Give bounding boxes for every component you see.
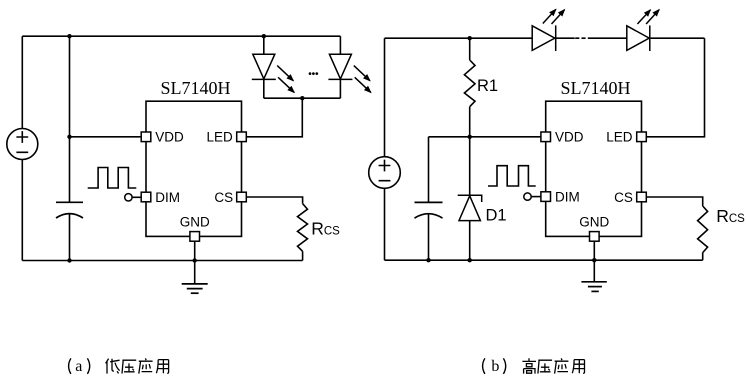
capacitor C1: [56, 202, 83, 218]
svg-text:LED: LED: [207, 129, 234, 144]
pin CS: [637, 192, 647, 202]
LED D5: [627, 25, 650, 51]
wire left vertical bottom: [384, 188, 386, 260]
LED D2 anode wire: [263, 36, 265, 54]
svg-text:D1: D1: [486, 207, 507, 225]
pin VDD: [541, 132, 551, 142]
pin DIM: [141, 192, 151, 202]
caption (b) paren right: [503, 358, 505, 374]
node bottom rail / cap: [426, 258, 430, 262]
caption (a) paren right: [87, 358, 89, 374]
IC U2 pins: [541, 132, 646, 241]
LED D3 anode wire: [339, 36, 341, 54]
pin LED: [237, 132, 247, 142]
hanzi 应 (a): [139, 358, 153, 373]
svg-text:GND: GND: [180, 215, 210, 230]
svg-text:DIM: DIM: [155, 190, 180, 205]
wire between LEDs solid right: [592, 37, 627, 39]
LED D2 light arrows: [277, 66, 294, 93]
dots ellipsis between LEDs: [309, 72, 312, 75]
LED D4 light arrows: [543, 9, 565, 24]
wire bottom rail: [385, 259, 703, 261]
wire LED cathode rail: [264, 97, 341, 99]
wire CS to RCS: [646, 197, 702, 206]
ground symbol: [581, 282, 606, 292]
node LED rail: [300, 96, 304, 100]
wire capacitor to bottom rail: [428, 214, 430, 260]
resistor RCS (a): [298, 204, 308, 252]
LED D2: [252, 54, 276, 79]
junction dots (b): [426, 36, 596, 262]
node top rail / LED D2: [262, 34, 266, 38]
node VDD tee: [67, 135, 71, 139]
wire top rail: [22, 35, 340, 37]
LED D3: [328, 54, 352, 79]
wire capacitor to bottom rail: [69, 214, 71, 260]
svg-text:SL7140H: SL7140H: [160, 78, 230, 98]
wire RCS to bottom rail: [302, 251, 304, 260]
svg-text:CS: CS: [214, 190, 233, 205]
LED D3 light arrows: [354, 66, 371, 93]
wire GND pin to ground: [194, 241, 196, 284]
junction dots (a): [67, 34, 318, 263]
svg-text:LED: LED: [606, 129, 633, 144]
svg-text:SL7140H: SL7140H: [560, 78, 630, 98]
wire between LEDs solid left: [556, 37, 575, 39]
IC U1 pins: [141, 132, 246, 241]
node top rail / R1: [468, 36, 472, 40]
svg-text:b: b: [491, 358, 499, 375]
svg-text:R1: R1: [477, 77, 498, 95]
svg-text:DIM: DIM: [555, 189, 580, 204]
wire VDD: [70, 136, 142, 138]
wire cap branch: [428, 137, 430, 203]
ground symbol: [182, 284, 208, 293]
caption (a) paren left: [69, 358, 71, 374]
pin LED: [637, 132, 647, 142]
node bottom rail / D1: [468, 258, 472, 262]
voltage source V2: [369, 157, 401, 189]
LED D5 light arrows: [637, 10, 659, 24]
wire GND pin to ground: [593, 241, 595, 281]
wire capacitor branch upper: [69, 36, 71, 202]
wire LED pin riser: [646, 38, 704, 137]
wire top rail right: [651, 37, 705, 39]
pin GND: [190, 232, 200, 242]
hanzi 压 (b): [538, 360, 552, 373]
node bottom rail / gnd: [193, 258, 197, 262]
node bottom rail / cap: [67, 258, 71, 262]
hanzi 高 (b): [522, 358, 536, 373]
pin GND: [590, 232, 600, 242]
node VDD / R1 / D1: [468, 135, 472, 139]
wire RCS to bottom rail: [702, 253, 704, 261]
svg-text:VDD: VDD: [555, 129, 584, 144]
wire DIM terminal to pin: [531, 196, 541, 198]
wire R1 upper lead: [469, 38, 471, 60]
wire D1 upper lead: [469, 137, 471, 196]
wire top rail left: [385, 37, 533, 39]
pin VDD: [141, 132, 151, 142]
hanzi 用 (b): [572, 360, 584, 374]
node top rail / cap branch: [67, 34, 71, 38]
hanzi 低 (a): [106, 359, 120, 374]
hanzi 用 (a): [156, 360, 168, 374]
svg-text:a: a: [75, 358, 82, 375]
LED D2 cathode wire: [263, 79, 265, 98]
pin CS: [237, 192, 247, 202]
hanzi 应 (b): [555, 358, 569, 373]
DIM input terminal: [524, 193, 531, 200]
svg-text:GND: GND: [579, 215, 609, 230]
wire DIM terminal to pin: [132, 196, 141, 198]
svg-text:VDD: VDD: [155, 129, 184, 144]
caption (b) paren left: [483, 358, 485, 374]
resistor RCS (b): [698, 206, 708, 253]
LED D3 cathode wire: [339, 79, 341, 98]
wire left vertical bottom: [21, 160, 23, 261]
svg-text:CS: CS: [614, 190, 633, 205]
resistor R1: [464, 60, 475, 107]
wire VDD node: [429, 136, 541, 138]
wire left vertical top: [21, 36, 23, 128]
wire D1 lower lead: [469, 221, 471, 261]
IC U2: [546, 101, 642, 236]
LED D4: [532, 25, 556, 51]
voltage source V1: [7, 129, 38, 160]
wire left vertical top: [384, 38, 386, 157]
wire bottom rail: [22, 260, 302, 262]
PWM waveform: [488, 166, 536, 186]
zener diode D1: [458, 195, 482, 220]
node bottom rail / gnd: [592, 258, 596, 262]
DIM input terminal: [125, 194, 132, 201]
capacitor C2: [415, 202, 443, 218]
wire LED pin to LED string: [246, 98, 302, 137]
wire R1 lower lead: [469, 107, 471, 137]
wire CS to RCS: [246, 197, 302, 204]
hanzi 压 (a): [122, 360, 136, 373]
PWM waveform: [88, 168, 137, 189]
wire dashed segment: [575, 37, 592, 39]
IC U1: [146, 101, 242, 236]
pin DIM: [541, 192, 551, 202]
